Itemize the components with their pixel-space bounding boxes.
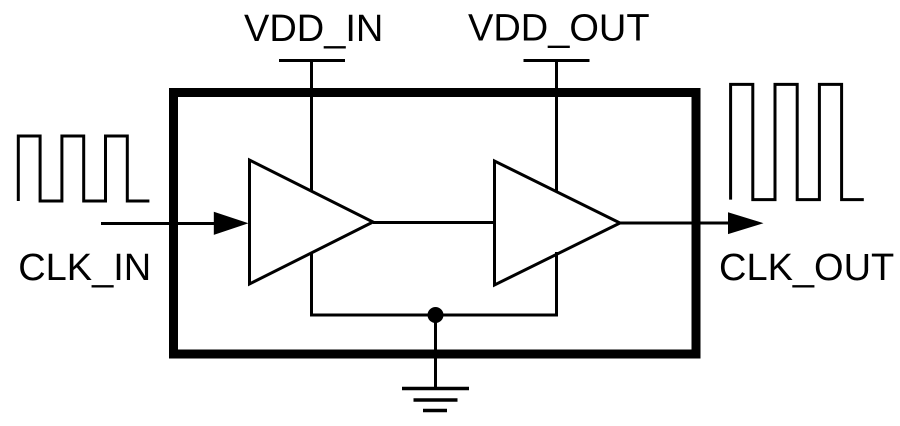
- svg-text:CLK_IN: CLK_IN: [18, 247, 151, 289]
- svg-text:VDD_IN: VDD_IN: [244, 8, 383, 50]
- svg-text:VDD_OUT: VDD_OUT: [468, 8, 650, 50]
- svg-text:CLK_OUT: CLK_OUT: [719, 247, 894, 289]
